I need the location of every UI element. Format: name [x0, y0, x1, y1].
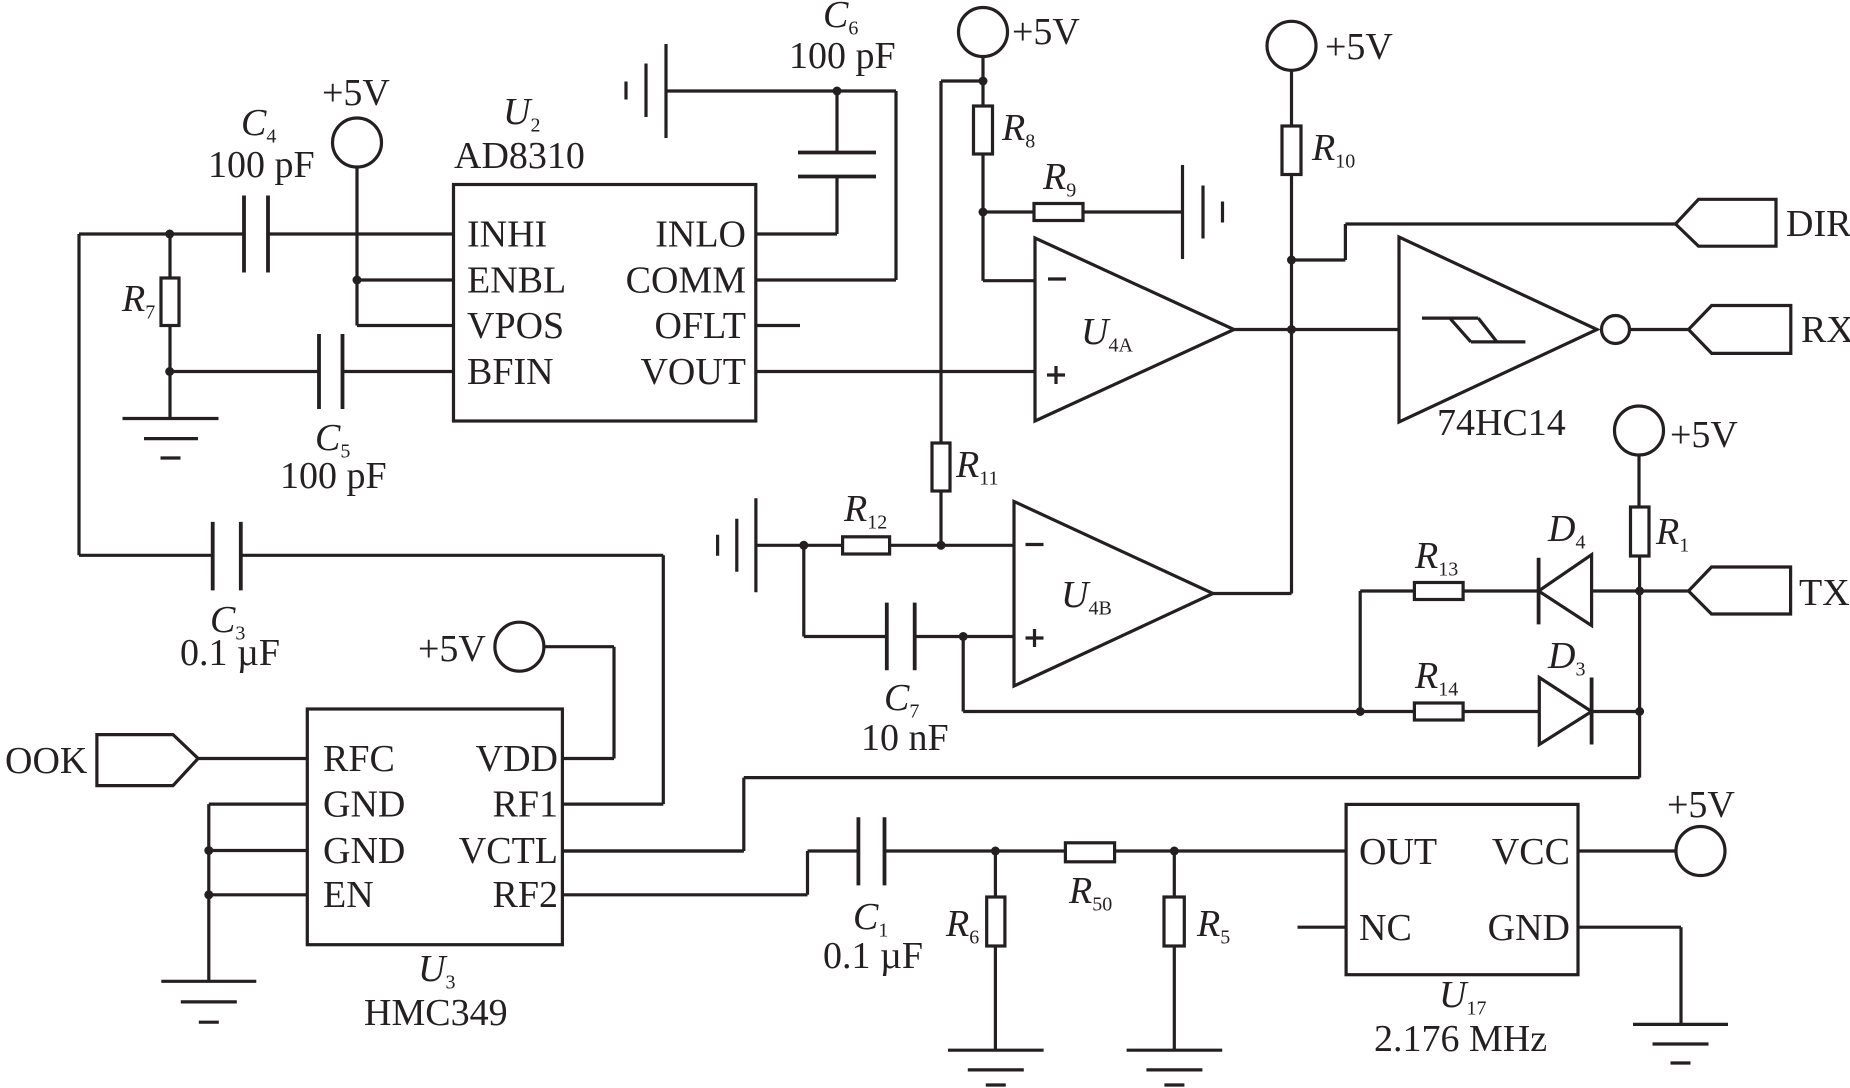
U4A plus sign [1047, 366, 1065, 384]
wire U4A minus row [983, 279, 1035, 282]
wire node to R7 top [168, 234, 171, 278]
svg-text:74HC14: 74HC14 [1437, 402, 1566, 444]
resistor R7 [161, 278, 179, 326]
wire RF2 row to C1 [562, 851, 858, 895]
svg-text:VCC: VCC [1492, 831, 1570, 873]
ground below U3 [161, 981, 256, 1022]
svg-text:HMC349: HMC349 [364, 992, 508, 1034]
resistor R50 [1065, 843, 1114, 862]
wire R10 bottom down to U4B output row [1290, 175, 1293, 594]
svg-text:0.1 µF: 0.1 µF [823, 935, 923, 977]
svg-text:NC: NC [1359, 907, 1412, 949]
wire ground to R12 with node [756, 544, 843, 547]
node R12 ground side [799, 541, 808, 550]
wire INLO pin to C6 stem [756, 177, 837, 235]
svg-text:INHI: INHI [467, 214, 547, 256]
U4A minus sign [1048, 277, 1066, 280]
svg-text:INLO: INLO [655, 214, 746, 256]
node R11/U4B minus [937, 541, 946, 550]
svg-text:100 pF: 100 pF [789, 35, 896, 77]
wire C1 to R50 [885, 849, 1066, 852]
svg-text:DIR: DIR [1786, 203, 1850, 245]
wire R13 row left [1360, 589, 1414, 592]
wire VCC to +5V [1578, 849, 1676, 852]
IC U2 AD8310 box [454, 185, 756, 422]
wire C6 top stem [835, 91, 838, 153]
svg-text:GND: GND [323, 784, 405, 826]
wire TX row [1640, 589, 1689, 592]
svg-text:+5V: +5V [1325, 26, 1393, 68]
wire VOUT row to U4A plus input [756, 370, 1035, 373]
power +5V circle (U3 VDD) [495, 622, 544, 671]
wire R6 to ground [994, 946, 997, 1050]
node BFIN/R7 [165, 367, 174, 376]
resistor R6 [987, 897, 1005, 946]
wire D4 to TX column [1592, 589, 1640, 592]
node U3 GND2 [204, 846, 213, 855]
wire R5 stem [1173, 851, 1176, 897]
svg-text:100 pF: 100 pF [280, 455, 387, 497]
power +5V circle (R8) [959, 8, 1008, 57]
wire R8 bottom to R9 node to U4A minus corner [981, 154, 984, 281]
wire R11 bottom to U4B minus row [939, 491, 942, 545]
74HC14 hysteresis symbol [1422, 318, 1525, 342]
wire C3 row [79, 554, 663, 557]
wire COMM row [756, 278, 896, 281]
inverter 74HC14 [1399, 237, 1597, 422]
node TX/D3 [1635, 707, 1644, 716]
wire GND1 row U3 [209, 802, 307, 805]
wire EN row U3 [209, 893, 307, 896]
svg-text:RF1: RF1 [493, 784, 558, 826]
svg-text:VCTL: VCTL [459, 830, 558, 872]
svg-text:100 pF: 100 pF [208, 144, 315, 186]
svg-text:BFIN: BFIN [467, 351, 554, 393]
wire C5 to BFIN pin [343, 370, 454, 373]
svg-text:AD8310: AD8310 [454, 135, 585, 177]
wire TX column down [1638, 556, 1641, 778]
diode D3 cathode bar [1590, 678, 1594, 745]
wire R13 left link vertical [1359, 591, 1362, 712]
diode D3 [1539, 678, 1591, 745]
wire U3 left ground column [207, 804, 210, 981]
wire C7 to U4B plus [915, 635, 1014, 638]
node +5V/R8/R11 [979, 77, 988, 86]
svg-text:+5V: +5V [1670, 414, 1738, 456]
wire +5V stem down to ENBL node [355, 167, 358, 280]
wire D3 to TX column [1592, 710, 1640, 713]
wire OFLT stub [756, 324, 800, 327]
ground below R6 [948, 1050, 1044, 1085]
wire C3 link down to RF1 [562, 555, 663, 804]
wire COMM link right vertical [894, 91, 897, 280]
wire VPOS row [357, 324, 454, 327]
wire left vertical x79 to C3 row [77, 234, 80, 555]
wire ENBL node down to VPOS row [355, 280, 358, 326]
connector RX [1689, 306, 1791, 354]
svg-text:TX: TX [1799, 572, 1850, 614]
wire x941 column (node81 to U4B minus node) [939, 81, 942, 443]
svg-text:OFLT: OFLT [654, 305, 746, 347]
power +5V circle (R10) [1267, 21, 1316, 70]
U4B minus sign [1026, 543, 1044, 546]
capacitor C4 [244, 196, 268, 273]
resistor R14 [1414, 703, 1463, 720]
wire R9 to ground [1083, 210, 1183, 213]
wire +5V to R1 [1637, 455, 1640, 507]
node C1/R6 [991, 847, 1000, 856]
svg-text:10 nF: 10 nF [861, 717, 949, 759]
svg-text:RX: RX [1801, 309, 1850, 351]
wire R12 to U4B minus [890, 544, 1014, 547]
wire R50 to U17 OUT [1115, 849, 1347, 852]
node TX/D4 [1635, 587, 1644, 596]
node U3 EN [204, 890, 213, 899]
capacitor C5 [319, 334, 343, 409]
capacitor C1 [858, 817, 884, 885]
wire OOK to RFC [198, 757, 307, 760]
wire ENBL row [357, 278, 454, 281]
wire C7 left link [804, 545, 887, 636]
wire +5V to VDD [544, 647, 614, 759]
op-amp U4B [1014, 502, 1213, 687]
resistor R1 [1631, 507, 1650, 556]
IC U3 HMC349 box [307, 709, 562, 945]
svg-text:RFC: RFC [323, 738, 395, 780]
resistor R10 [1282, 126, 1301, 175]
svg-text:OUT: OUT [1359, 831, 1437, 873]
wire R6 stem [994, 851, 997, 897]
svg-text:OOK: OOK [5, 740, 88, 782]
wire C7 node down to R14 row [963, 637, 1360, 712]
power +5V circle (R1) [1615, 406, 1664, 455]
wire R14 to D3 [1463, 710, 1539, 713]
node R13/R14 left [1356, 707, 1365, 716]
IC U17 oscillator box [1346, 804, 1578, 974]
svg-text:0.1 µF: 0.1 µF [180, 632, 280, 674]
svg-text:GND: GND [323, 830, 405, 872]
ground below R5 [1127, 1050, 1223, 1085]
node C7/U4B plus [959, 632, 968, 641]
connector OOK [97, 735, 198, 786]
wire NC stub [1298, 926, 1347, 929]
node R10/DIR [1287, 256, 1296, 265]
wire TX column to VCTL link [562, 778, 1639, 851]
ground below R7 [123, 419, 219, 459]
wire VCTL row [562, 849, 743, 852]
wire BFIN row: node to C5 [170, 370, 319, 373]
connector DIR [1676, 199, 1777, 246]
capacitor C3 [213, 522, 241, 591]
svg-text:VDD: VDD [476, 738, 558, 780]
resistor R11 [932, 443, 950, 491]
svg-text:GND: GND [1488, 907, 1570, 949]
power +5V circle (U17) [1676, 827, 1725, 876]
diode D4 cathode bar [1537, 558, 1541, 625]
wire +5V to R8 top with node [981, 57, 984, 107]
wire +5V to R10 [1290, 70, 1293, 126]
ground right of R9 [1183, 165, 1223, 259]
svg-text:+5V: +5V [418, 628, 486, 670]
wire U4B output [1213, 592, 1292, 595]
wire C6 ground row [666, 89, 896, 92]
svg-text:EN: EN [323, 874, 374, 916]
wire GND pin link [1578, 927, 1681, 1024]
wire 74HC14 input [1292, 328, 1399, 331]
svg-text:VPOS: VPOS [467, 305, 564, 347]
diode D4 [1539, 555, 1592, 626]
svg-text:VOUT: VOUT [640, 351, 746, 393]
capacitor C6 [798, 153, 876, 177]
node C6 top [833, 87, 842, 96]
node INHI/R7 [165, 230, 174, 239]
node R50/R5 [1170, 847, 1179, 856]
wire R14 row left [1360, 710, 1414, 713]
ground left of R12 [718, 498, 756, 592]
resistor R12 [843, 537, 890, 554]
74HC14 output bubble [1602, 316, 1630, 344]
resistor R8 [974, 106, 993, 154]
wire R5 to ground [1173, 946, 1176, 1050]
wire C4 to INHI pin [268, 232, 454, 235]
node U4A output [1287, 325, 1296, 334]
wire R7 bottom to ground [168, 326, 171, 419]
resistor R5 [1164, 897, 1184, 946]
wire DIR jog [1292, 224, 1676, 260]
resistor R9 [1034, 204, 1083, 221]
svg-text:RF2: RF2 [493, 874, 558, 916]
power +5V circle (U2) [333, 118, 382, 167]
ground left of C6 [626, 44, 666, 138]
wire U4A output [1234, 328, 1292, 331]
wire GND2 row U3 [209, 849, 307, 852]
svg-text:COMM: COMM [626, 260, 746, 302]
resistor R13 [1414, 583, 1463, 600]
ground below U17 [1633, 1024, 1728, 1063]
svg-text:ENBL: ENBL [467, 260, 566, 302]
connector TX [1689, 567, 1791, 614]
wire INHI row left segment [79, 232, 244, 235]
node ENBL/+5V [353, 276, 362, 285]
wire bubble to RX [1630, 328, 1689, 331]
svg-text:+5V: +5V [1012, 11, 1080, 53]
op-amp U4A [1035, 238, 1234, 421]
U4B plus sign [1026, 629, 1044, 647]
wire R9 row left [983, 210, 1034, 213]
capacitor C7 [887, 603, 915, 671]
wire R13 to D4 [1463, 589, 1539, 592]
svg-text:2.176 MHz: 2.176 MHz [1374, 1018, 1547, 1060]
node R8/R9 [979, 208, 988, 217]
wire node81 left link [941, 79, 983, 82]
svg-text:+5V: +5V [322, 72, 390, 114]
svg-text:+5V: +5V [1667, 784, 1735, 826]
